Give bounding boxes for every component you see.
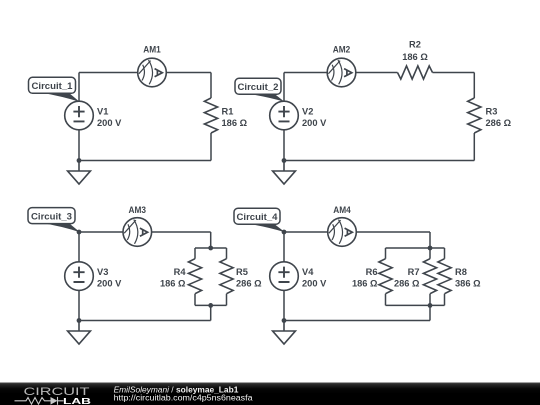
svg-text:AM1: AM1 [143,44,161,54]
wire: C1 bottom [79,160,211,162]
wire: C4 bottom drop [429,305,431,320]
node dot C3 parallel top [208,246,213,251]
wire: C3 parallel top rail [195,247,227,249]
svg-text:186 Ω: 186 Ω [352,279,378,289]
resistor R7 [423,259,436,294]
ground C3 [68,321,91,345]
svg-text:186 Ω: 186 Ω [160,279,186,289]
voltage source V1 [65,101,94,130]
wire: C2 bottom [284,160,474,162]
svg-text:R7: R7 [408,267,420,277]
svg-text:R5: R5 [236,267,248,277]
svg-text:200 V: 200 V [97,118,122,128]
svg-text:R8: R8 [455,267,467,277]
wire: C4 right vertical (to parallel top node) [429,232,431,248]
svg-text:186 Ω: 186 Ω [222,118,248,128]
wire: C3 right vertical (to parallel top node) [210,232,212,248]
ammeter AM4 [328,218,357,247]
wire: C3 bottom drop [210,305,212,320]
wire: C3 bottom [79,320,211,322]
svg-text:V2: V2 [302,106,313,116]
svg-text:V3: V3 [97,267,108,277]
wire: C2 left vertical [283,73,285,161]
resistor R4 [188,259,201,294]
wire: C4 parallel bottom rail [386,304,445,306]
svg-text:AM4: AM4 [333,205,351,215]
svg-text:286 Ω: 286 Ω [394,279,420,289]
node dot C3 parallel bottom [208,303,213,308]
wire: C4 top [284,231,430,233]
wire: C1 right vertical [210,73,212,161]
voltage source V3 [65,262,94,291]
svg-text:200 V: 200 V [302,279,327,289]
svg-text:V4: V4 [302,267,314,277]
svg-text:386 Ω: 386 Ω [455,279,481,289]
svg-text:R1: R1 [222,106,234,116]
svg-text:Circuit_2: Circuit_2 [238,82,279,92]
ground C2 [273,161,296,185]
flag Circuit_4 [234,208,285,232]
wire: R7 stems [429,248,431,305]
node dot C3 top-left [77,230,82,235]
svg-text:AM3: AM3 [129,205,147,215]
wire: R6 stems [385,248,387,305]
ground C1 [68,161,91,185]
wire: C3 top [79,231,211,233]
svg-text:200 V: 200 V [302,118,327,128]
resistor R2 [398,66,433,79]
wire: R8 stems [444,248,446,305]
ammeter AM3 [123,218,152,247]
voltage source V2 [270,101,299,130]
ammeter AM1 [138,58,167,87]
node dot C2 bottom [282,158,287,163]
svg-text:R3: R3 [486,106,498,116]
svg-text:286 Ω: 286 Ω [236,279,262,289]
wire: C2 top [284,72,474,74]
ammeter AM2 [327,58,356,87]
svg-text:AM2: AM2 [333,44,351,54]
wire: C1 top [79,72,211,74]
svg-text:http://circuitlab.com/c4p5ns6n: http://circuitlab.com/c4p5ns6neasfa [114,393,253,403]
ground C4 [273,321,296,345]
footer bar background [0,383,540,405]
svg-text:R4: R4 [174,267,187,277]
node dot C4 bottom [282,318,287,323]
resistor R3 [468,98,481,133]
voltage source V4 [270,262,299,291]
svg-text:LAB: LAB [63,396,91,405]
resistor R5 [220,259,233,294]
svg-text:Circuit_4: Circuit_4 [237,212,279,222]
resistor R8 [438,259,451,294]
svg-text:Circuit_1: Circuit_1 [32,81,73,91]
node dot C4 parallel bottom [428,303,433,308]
node dot C4 parallel top [428,246,433,251]
wire: C3 left vertical [78,232,80,321]
svg-text:286 Ω: 286 Ω [486,118,512,128]
flag Circuit_3 [28,208,80,233]
svg-text:200 V: 200 V [97,279,122,289]
svg-text:Circuit_3: Circuit_3 [31,211,72,221]
wire: C1 left vertical [78,73,80,161]
resistor R1 [204,98,217,133]
resistor R6 [379,259,392,294]
wire: C3 parallel bottom rail [195,304,227,306]
wire: C4 parallel top rail [386,247,445,249]
wire: R4 stems [194,248,196,305]
node dot C3 bottom [77,318,82,323]
svg-text:V1: V1 [97,106,108,116]
flag Circuit_2 [235,78,285,102]
svg-text:R6: R6 [366,267,378,277]
svg-text:186 Ω: 186 Ω [402,52,428,62]
wire: R5 stems [226,248,228,305]
flag Circuit_1 [29,77,80,102]
wire: C4 bottom [284,320,430,322]
node dot C4 top-left [282,230,287,235]
logo resistor+diode glyph [15,397,64,405]
wire: C4 left vertical [283,232,285,321]
node dot C1 bottom [77,158,82,163]
wire: C2 right vertical [473,73,475,161]
svg-text:R2: R2 [409,39,421,49]
